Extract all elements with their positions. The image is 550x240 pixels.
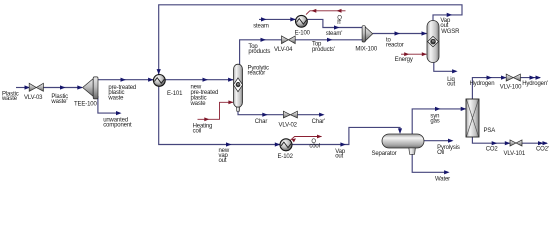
arrow mid Plastic waste': [60, 85, 66, 89]
svg-text:E-101: E-101: [167, 91, 183, 97]
arrow Q-cool near E-102: [292, 138, 297, 142]
svg-text:VLV-02: VLV-02: [279, 122, 298, 128]
arrow Water outlet: [444, 170, 450, 174]
svg-text:out: out: [447, 81, 455, 87]
node Pyrolysis Oil: [437, 145, 460, 156]
arrow mid steam: [261, 17, 267, 21]
wire steam inlet to E-100: [259, 18, 295, 20]
svg-text:waste: waste: [107, 95, 124, 101]
arrow down into Separator: [398, 128, 402, 134]
valve VLV-03: [29, 83, 43, 91]
tee TEE-100: [83, 77, 98, 99]
label Pyrolytic reactor: [248, 65, 269, 76]
node Q cool (energy): [309, 139, 319, 149]
heat exchanger E-100: [296, 15, 308, 27]
svg-text:waste: waste: [190, 101, 207, 107]
arrow Energy mid: [404, 52, 409, 56]
node Vap out (WGSR top): [440, 18, 451, 29]
svg-text:CO2: CO2: [486, 147, 499, 153]
wire Pyrolytic reactor top to VLV-04 (Top products): [240, 40, 282, 65]
arrow Q-h toward E-100 (outer): [337, 9, 342, 13]
wire Plastic waste inlet to VLV-03: [16, 87, 30, 89]
svg-text:VLV-100: VLV-100: [500, 85, 522, 91]
arrow mid Top products: [261, 38, 267, 42]
arrow mid CO2: [492, 141, 498, 145]
svg-text:VLV-03: VLV-03: [24, 95, 43, 101]
svg-text:MIX-100: MIX-100: [355, 47, 377, 53]
heat exchanger E-102: [280, 139, 292, 151]
arrow mid syn gas: [435, 107, 441, 111]
arrow syn gas into PSA: [461, 107, 467, 111]
arrow Char' outlet: [319, 113, 325, 117]
arrow Hydrogen' mid: [530, 76, 536, 80]
node unwanted component: [103, 118, 132, 129]
arrow Q-h toward E-100 (inner): [311, 9, 316, 13]
arrow Liq out outlet: [452, 69, 458, 73]
svg-text:component: component: [103, 122, 132, 128]
svg-text:VLV-04: VLV-04: [274, 47, 293, 53]
wire Separator top to PSA (syn gas): [412, 109, 466, 134]
node Top products': [312, 42, 335, 53]
valve VLV-100: [506, 74, 520, 81]
svg-text:steam': steam': [326, 31, 343, 37]
valve VLV-04: [282, 36, 296, 44]
valve VLV-101: [510, 140, 522, 146]
svg-text:Separator: Separator: [372, 151, 397, 157]
wire Pyrolytic reactor bottom to VLV-02 (Char): [238, 111, 283, 115]
wire E-102 to Separator (Vap out): [292, 127, 400, 144]
node Q h (energy): [337, 15, 342, 25]
node Plastic waste (feed label): [1, 91, 19, 102]
svg-text:CO2': CO2': [536, 147, 549, 153]
svg-text:steam: steam: [253, 24, 269, 30]
arrow CO2' mid: [538, 141, 544, 145]
arrow on new vap out into E-102: [226, 142, 232, 146]
arrow on WGSR vap out segment: [447, 13, 453, 17]
svg-text:gas: gas: [430, 118, 439, 124]
wire Separator bottom (Water): [412, 155, 448, 173]
arrow mid Hydrogen: [487, 76, 493, 80]
wire VLV-100 to Hydrogen' outlet: [521, 77, 540, 79]
svg-text:VLV-101: VLV-101: [504, 151, 526, 157]
arrow into Pyrolytic reactor: [228, 78, 234, 82]
svg-text:TEE-100: TEE-100: [74, 102, 97, 108]
node Liq out: [447, 77, 455, 88]
arrow on Plastic waste into VLV-03: [25, 85, 31, 89]
svg-text:reactor: reactor: [248, 70, 266, 76]
arrow Q-cool outlet: [317, 135, 322, 139]
arrow unwanted component outlet: [116, 111, 122, 115]
svg-text:products': products': [312, 47, 335, 53]
wire PSA bottom to VLV-101 (CO2): [472, 137, 509, 143]
svg-text:E-102: E-102: [278, 154, 294, 160]
arrow mid to reactor: [395, 31, 401, 35]
wire E-101 to Pyrolytic reactor (new pre-treated plastic waste): [166, 79, 234, 81]
svg-text:out: out: [335, 154, 343, 160]
arrow Hydrogen into VLV-100: [501, 76, 507, 80]
wire energy Q-h into E-100: [306, 11, 346, 15]
arrow on Vap out before corner: [340, 142, 346, 146]
svg-text:Char: Char: [255, 119, 268, 125]
arrow Pyrolysis Oil outlet: [448, 139, 454, 143]
valve VLV-02: [283, 111, 297, 118]
wire energy Energy into WGSR: [401, 53, 426, 55]
arrow to reactor into WGSR: [422, 31, 428, 35]
svg-text:WGSR: WGSR: [441, 29, 460, 35]
arrow Energy into WGSR: [422, 52, 427, 56]
svg-text:E-100: E-100: [295, 31, 311, 37]
wire VLV-04 to MIX-100 (Top products'): [295, 39, 362, 41]
arrow Heating coil into reactor: [228, 100, 233, 104]
svg-text:Hydrogen: Hydrogen: [470, 81, 495, 87]
arrow Hydrogen' outlet: [536, 76, 542, 80]
reactor Pyrolytic reactor (vessel with C icon): [233, 64, 242, 111]
node Top products: [248, 44, 270, 55]
svg-text:Hydrogen': Hydrogen': [522, 81, 548, 87]
separator Separator (horizontal drum): [382, 134, 424, 154]
node pre-treated plastic waste: [107, 85, 136, 102]
arrow mid pre-treated plastic waste: [121, 78, 127, 82]
wire PSA top to VLV-100 (Hydrogen): [472, 78, 505, 99]
wire energy Q-cool out of E-102: [290, 137, 322, 141]
adsorber PSA: [466, 99, 479, 137]
svg-text:PSA: PSA: [484, 128, 496, 134]
svg-text:cool: cool: [309, 144, 319, 150]
arrow down into E-101 hot side: [157, 69, 161, 75]
arrow CO2 into VLV-101: [505, 141, 511, 145]
arrow CO2' outlet: [543, 141, 549, 145]
svg-text:out: out: [440, 23, 448, 29]
svg-text:Oil: Oil: [437, 150, 444, 156]
arrow into E-102: [275, 142, 281, 146]
node Heating coil: [193, 123, 213, 134]
wire TEE-100 bottom outlet (unwanted component): [98, 96, 120, 113]
wire VLV-03 to TEE-100: [44, 87, 83, 89]
arrow mid new pre-treated plastic waste: [203, 78, 209, 82]
reactor WGSR (vessel with C icon): [427, 21, 439, 63]
svg-text:Char': Char': [312, 119, 325, 125]
wire VLV-101 to CO2' outlet: [522, 142, 547, 144]
svg-text:waste': waste': [50, 99, 67, 105]
arrow steam into E-100: [290, 17, 296, 21]
svg-text:coil: coil: [193, 128, 201, 134]
mixer MIX-100: [362, 26, 373, 42]
wire VLV-02 to Char' outlet: [298, 114, 323, 116]
svg-text:h: h: [337, 20, 340, 26]
node Plastic waste': [50, 94, 68, 105]
wire Separator right (Pyrolysis Oil): [424, 140, 452, 142]
node new vap out: [219, 148, 230, 164]
wire E-101 hot side down to E-102 (new vap out): [159, 86, 280, 144]
arrow mid Top products': [327, 38, 333, 42]
svg-text:out: out: [219, 158, 227, 164]
wire energy Heating coil into Pyrolytic reactor: [198, 102, 234, 119]
wire WGSR bottom (Liq out): [434, 62, 456, 71]
arrow into E-101: [148, 78, 154, 82]
wire TEE-100 top outlet (pre-treated plastic waste) to E-101: [98, 79, 154, 81]
arrow mid steam': [334, 25, 340, 29]
node Vap out (to separator): [335, 149, 346, 160]
svg-text:Water: Water: [435, 176, 450, 182]
node to reactor: [386, 37, 404, 48]
wire E-100 to MIX-100 (steam'): [308, 19, 363, 27]
wire WGSR vap out up and across top into E-101 hot side: [159, 5, 462, 75]
svg-text:Energy: Energy: [395, 57, 413, 63]
svg-text:waste: waste: [1, 96, 18, 102]
wire MIX-100 to WGSR (to reactor): [373, 33, 427, 35]
svg-text:reactor: reactor: [386, 42, 404, 48]
svg-text:products: products: [248, 49, 270, 55]
node new pre-treated plastic waste: [190, 85, 219, 107]
heat exchanger E-101: [153, 75, 165, 87]
arrow into TEE-100: [77, 85, 83, 89]
arrow Heating coil mid: [204, 117, 209, 121]
node syn gas: [430, 114, 439, 125]
arrow mid Char: [262, 113, 268, 117]
